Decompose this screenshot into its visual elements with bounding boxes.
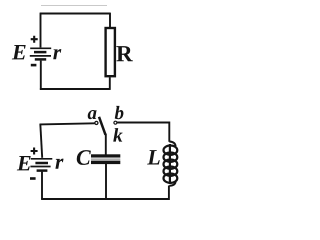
label E (bottom)	[17, 156, 31, 170]
wire: bottom edge of upper loop	[40, 88, 110, 90]
label k	[113, 128, 122, 142]
wire: top edge of upper loop	[40, 13, 110, 15]
label b	[115, 106, 124, 119]
battery E (bottom circuit): plate 4 short thick	[37, 169, 48, 172]
inductor L: coil turn 4	[164, 167, 178, 176]
wire: bottom edge	[41, 198, 169, 200]
battery E (top circuit): plate 2 short thick	[34, 51, 46, 54]
minus sign (top battery)	[31, 64, 37, 67]
wire: top edge left (battery to switch contact a)	[40, 123, 95, 124]
label L	[147, 150, 160, 164]
inductor L: coil turn 3	[164, 160, 178, 169]
battery E (bottom circuit): plate 2 short thick	[35, 162, 48, 165]
label R	[116, 46, 132, 61]
switch contact a (circle)	[95, 121, 98, 124]
inductor L: coil turn 2	[164, 153, 178, 162]
switch blade k	[99, 117, 106, 135]
wire: left edge lower (battery - to bottom)	[40, 61, 42, 90]
label r (bottom)	[55, 159, 63, 169]
label r (top)	[53, 49, 61, 59]
plus sign (bottom battery)	[31, 148, 38, 155]
wire: right edge upper (corner to inductor)	[168, 122, 170, 142]
wire: right edge lower (inductor to bottom corner)	[168, 186, 170, 201]
wire: right edge upper stub	[109, 13, 111, 28]
inductor L: top lead curve	[169, 142, 175, 147]
wire: left edge lower	[41, 172, 43, 200]
wire: capacitor bottom down to bottom edge	[105, 164, 107, 200]
label E (top)	[12, 45, 26, 59]
capacitor C: top plate	[91, 154, 120, 157]
wire: left edge upper (to battery +)	[40, 13, 42, 48]
resistor R	[106, 28, 115, 76]
battery E (bottom circuit): plate 1 long thin	[31, 158, 53, 160]
capacitor C: gray dielectric	[91, 157, 120, 160]
wire: switch pivot down to capacitor	[105, 134, 107, 155]
plus sign (top battery)	[31, 36, 38, 43]
switch contact b (circle)	[114, 121, 117, 124]
label C	[77, 150, 91, 165]
wire: left edge upper	[40, 124, 42, 158]
battery E (top circuit): plate 4 short thick	[35, 58, 46, 61]
inductor L: bottom lead curve	[169, 182, 175, 186]
battery E (top circuit): plate 3 long thin	[30, 55, 51, 57]
minus sign (bottom battery)	[30, 177, 36, 180]
battery E (bottom circuit): plate 3 long thin	[30, 166, 50, 168]
label a	[88, 110, 97, 119]
faint print bleed-through line at top	[41, 5, 107, 7]
inductor L: coil turn 5	[164, 174, 178, 183]
inductor L: core wire through coil	[169, 144, 171, 184]
inductor L: coil turn 1	[164, 146, 178, 155]
wire: top edge right (contact b to right corner)	[117, 122, 169, 124]
wire: right edge lower stub	[109, 77, 111, 90]
capacitor C: bottom plate	[91, 161, 120, 164]
battery E (top circuit): plate 1 long thin	[30, 47, 51, 49]
